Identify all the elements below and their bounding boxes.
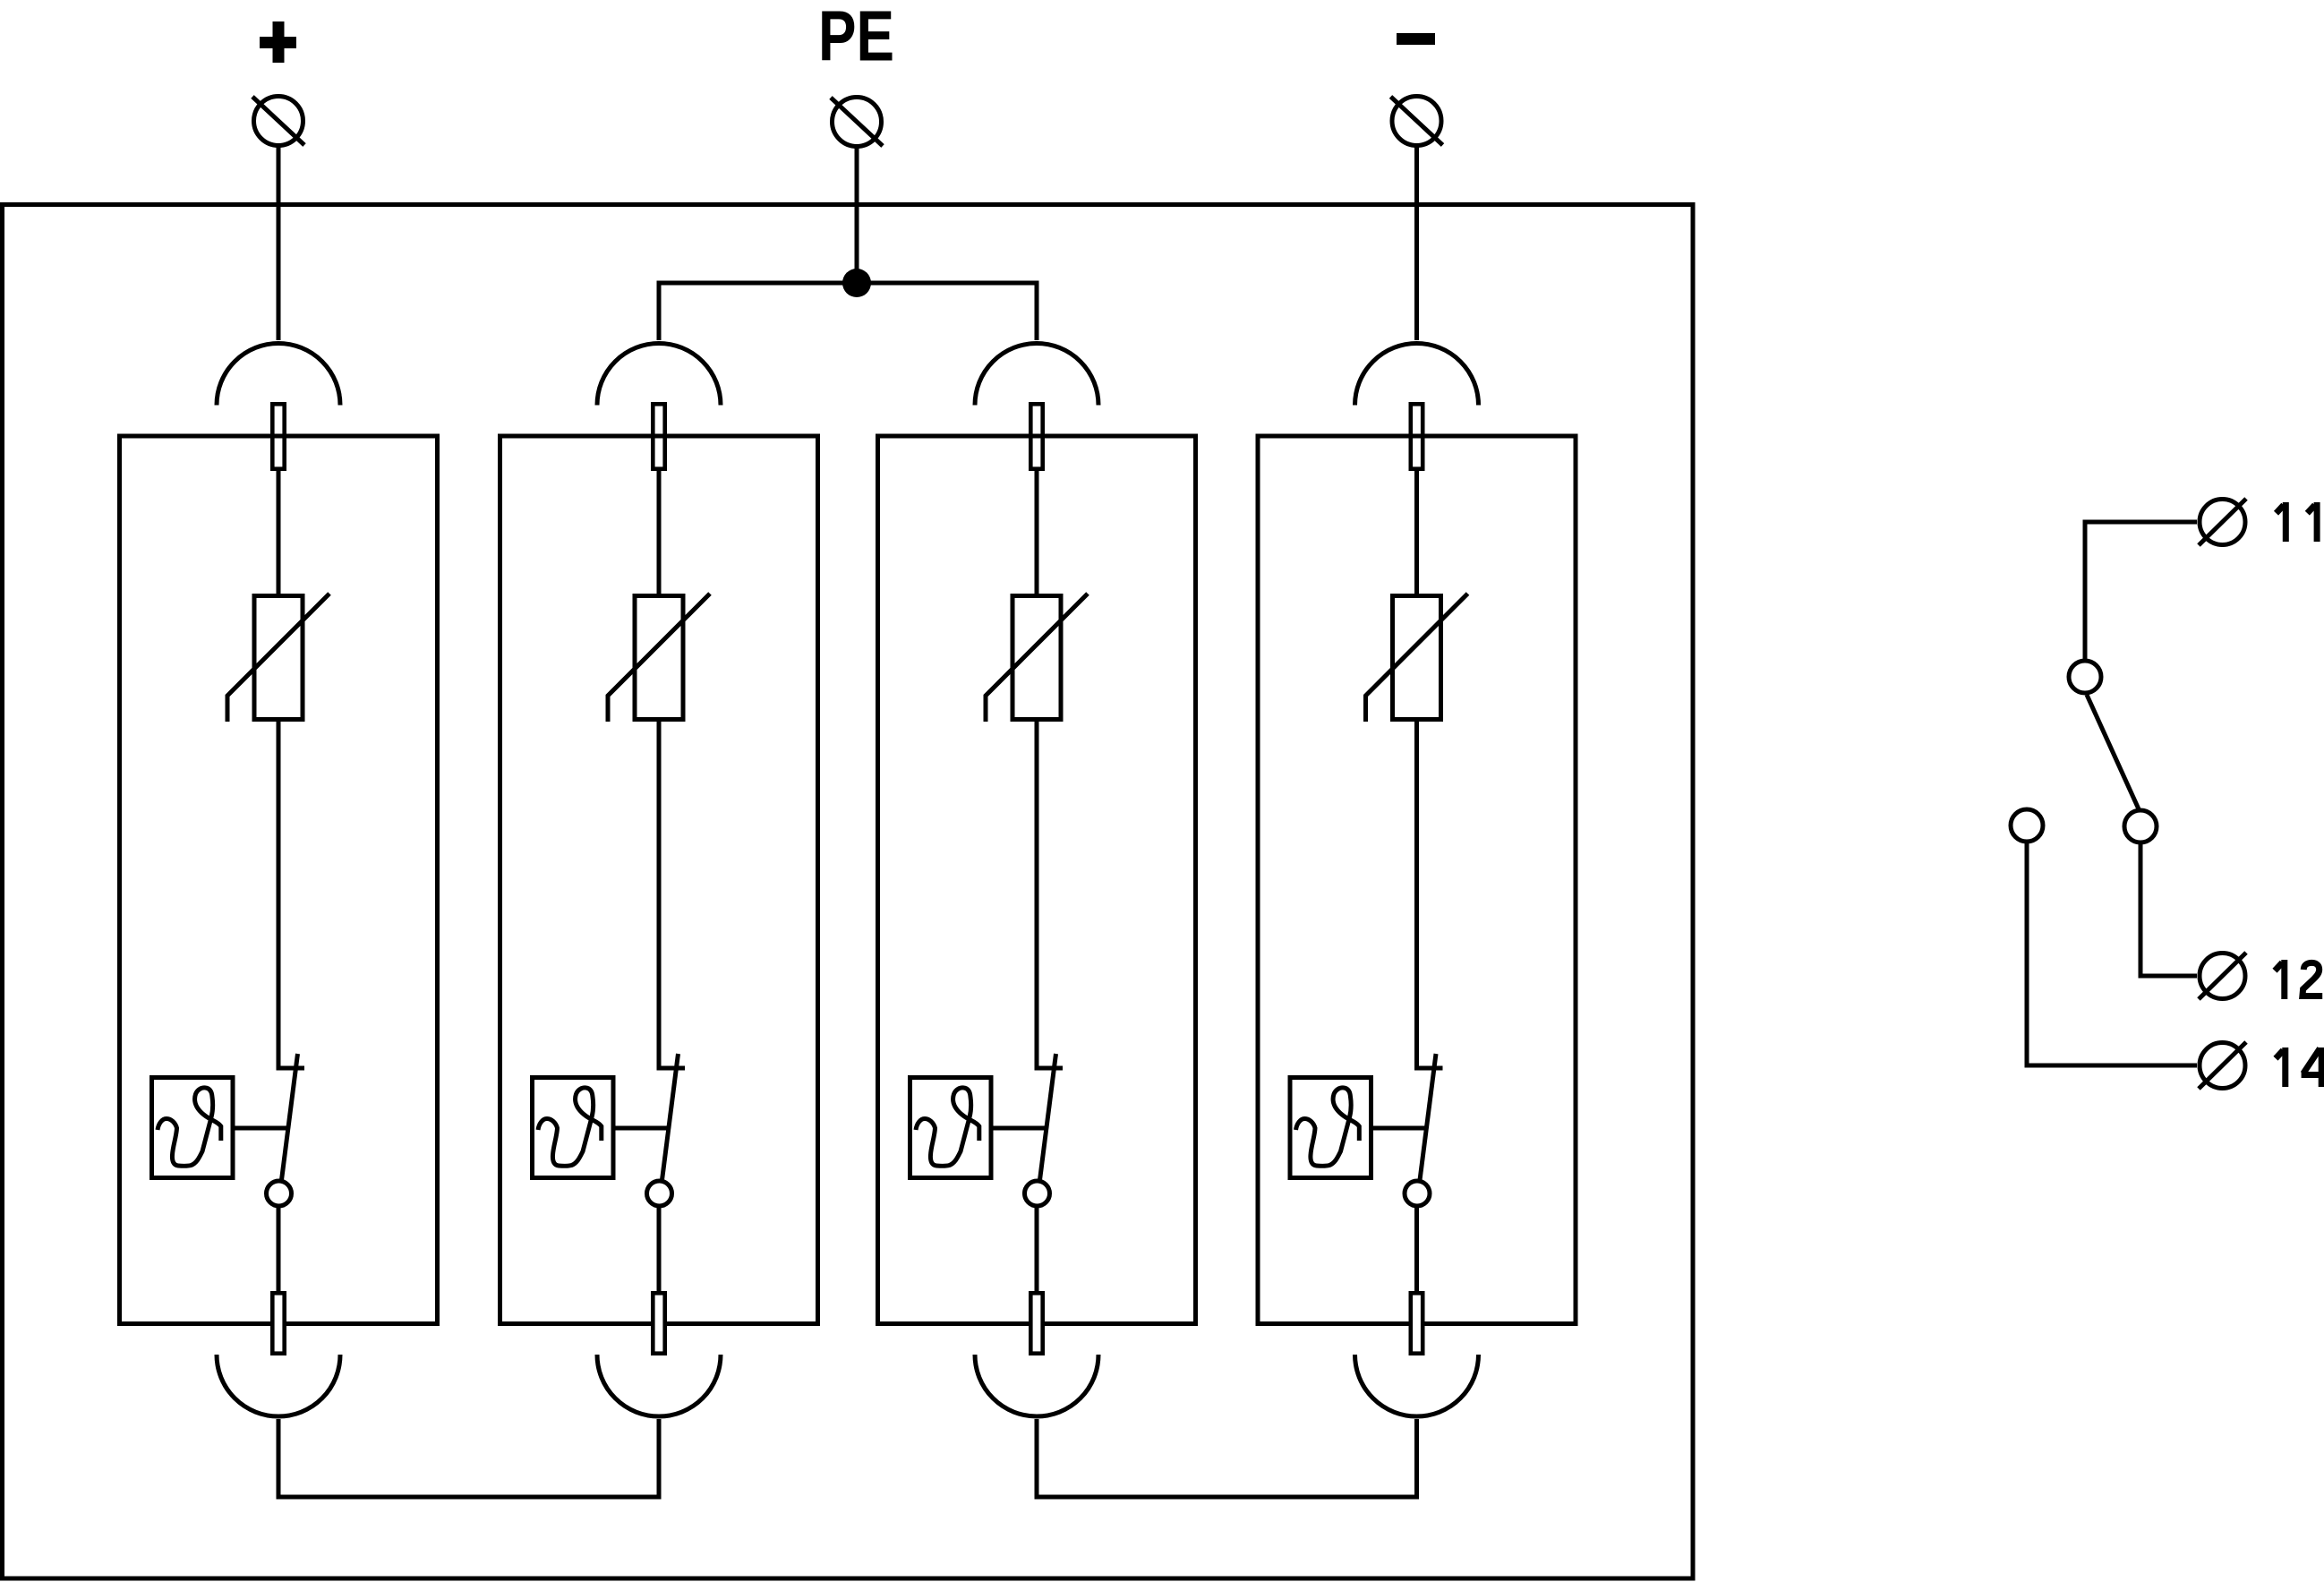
varistor RV1 bbox=[227, 594, 329, 722]
terminal screw 12 bbox=[2199, 953, 2246, 999]
wire contact to terminal 12 bbox=[2140, 843, 2197, 976]
disconnector switch F3 blade bbox=[1040, 1054, 1056, 1180]
wire F1 varistor to disconnector bbox=[278, 722, 304, 1068]
module F1 plug-in contact arc (top) bbox=[217, 344, 340, 406]
wire F1 switch to bottom pin bbox=[277, 1208, 281, 1291]
enclosure box bbox=[3, 205, 1694, 1579]
wire F4 switch to bottom pin bbox=[1414, 1208, 1419, 1291]
disconnector switch F1 blade bbox=[282, 1054, 298, 1180]
thermal trip device F1 symbol bbox=[158, 1088, 221, 1166]
linkage thermal trip to switch F3 bbox=[994, 1126, 1047, 1131]
thermal trip device F3 symbol bbox=[916, 1088, 979, 1166]
module F4 bottom terminal pin bbox=[1411, 1293, 1423, 1353]
module F4 plug-in contact arc (bottom) bbox=[1355, 1355, 1479, 1416]
disconnector switch F2 moving contact bbox=[647, 1181, 672, 1206]
label - (negative terminal) bbox=[1397, 33, 1435, 45]
wire contact to terminal 14 bbox=[2027, 842, 2197, 1065]
module F2 plug-in contact arc (top) bbox=[597, 344, 721, 406]
varistor RV3 bbox=[986, 594, 1088, 722]
wire F3 switch to bottom pin bbox=[1035, 1208, 1039, 1291]
svg-text:PE: PE bbox=[818, 0, 894, 76]
module F2 box bbox=[500, 436, 818, 1324]
thermal trip device F3 box bbox=[910, 1078, 992, 1178]
thermal trip device F2 box bbox=[533, 1078, 614, 1178]
varistor RV4 bbox=[1366, 594, 1468, 722]
terminal screw 14 bbox=[2199, 1042, 2246, 1089]
label 14 bbox=[2276, 1048, 2286, 1087]
terminal screw PE bbox=[831, 98, 883, 147]
thermal trip device F4 symbol bbox=[1296, 1088, 1360, 1166]
thermal trip device F1 box bbox=[152, 1078, 234, 1178]
wire F4 varistor to disconnector bbox=[1417, 722, 1443, 1068]
changeover contact node to 12 bbox=[2124, 810, 2157, 842]
module F3 box bbox=[878, 436, 1196, 1324]
disconnector switch F3 moving contact bbox=[1025, 1181, 1050, 1206]
terminal screw - bbox=[1391, 97, 1443, 146]
module F2 bottom terminal pin bbox=[653, 1293, 664, 1353]
module F2 top terminal pin bbox=[653, 404, 664, 468]
linkage thermal trip to switch F1 bbox=[235, 1126, 289, 1131]
wire F4 pin to varistor bbox=[1414, 471, 1419, 594]
thermal trip device F4 box bbox=[1290, 1078, 1371, 1178]
wire bottom link module F3 to F4 bbox=[1037, 1419, 1417, 1497]
linkage thermal trip to switch F4 bbox=[1373, 1126, 1427, 1131]
module F4 box bbox=[1258, 436, 1576, 1324]
wire - terminal to module F4 bbox=[1414, 145, 1419, 340]
varistor RV2 bbox=[608, 594, 710, 722]
module F1 plug-in contact arc (bottom) bbox=[217, 1355, 340, 1416]
terminal screw 11 bbox=[2199, 499, 2246, 545]
module F1 box bbox=[120, 436, 438, 1324]
module F1 top terminal pin bbox=[272, 404, 284, 468]
module F4 plug-in contact arc (top) bbox=[1355, 344, 1479, 406]
node PE junction bbox=[842, 269, 871, 297]
disconnector switch F1 moving contact bbox=[267, 1181, 292, 1206]
wire F3 varistor to disconnector bbox=[1037, 722, 1063, 1068]
linkage thermal trip to switch F2 bbox=[616, 1126, 670, 1131]
wire bottom link module F1 to F2 bbox=[278, 1419, 659, 1497]
wire PE terminal to junction bbox=[855, 146, 859, 283]
wire F2 switch to bottom pin bbox=[657, 1208, 662, 1291]
terminal screw + bbox=[252, 97, 304, 146]
changeover contact pivot node bbox=[2069, 661, 2101, 693]
disconnector switch F2 blade bbox=[662, 1054, 679, 1180]
wire F1 pin to varistor bbox=[277, 471, 281, 594]
wire F2 pin to varistor bbox=[657, 471, 662, 594]
thermal trip device F2 symbol bbox=[538, 1088, 602, 1166]
module F3 plug-in contact arc (bottom) bbox=[975, 1355, 1098, 1416]
label 12 bbox=[2275, 960, 2285, 999]
wire + terminal to module F1 bbox=[277, 145, 281, 340]
module F2 plug-in contact arc (bottom) bbox=[597, 1355, 721, 1416]
module F4 top terminal pin bbox=[1411, 404, 1423, 468]
module F3 bottom terminal pin bbox=[1030, 1293, 1042, 1353]
label 11 bbox=[2277, 502, 2286, 542]
wire terminal 11 to changeover pivot bbox=[2085, 522, 2197, 660]
changeover contact node to 14 bbox=[2011, 809, 2043, 842]
disconnector switch F4 moving contact bbox=[1405, 1181, 1430, 1206]
label + (positive terminal) bbox=[260, 21, 296, 63]
wire F3 pin to varistor bbox=[1035, 471, 1039, 594]
wire PE branch to modules F2 and F3 bbox=[659, 283, 1037, 340]
disconnector switch F4 blade bbox=[1420, 1054, 1436, 1180]
module F1 bottom terminal pin bbox=[272, 1293, 284, 1353]
module F3 top terminal pin bbox=[1030, 404, 1042, 468]
wire F2 varistor to disconnector bbox=[659, 722, 685, 1068]
changeover contact blade bbox=[2087, 695, 2140, 811]
module F3 plug-in contact arc (top) bbox=[975, 344, 1098, 406]
